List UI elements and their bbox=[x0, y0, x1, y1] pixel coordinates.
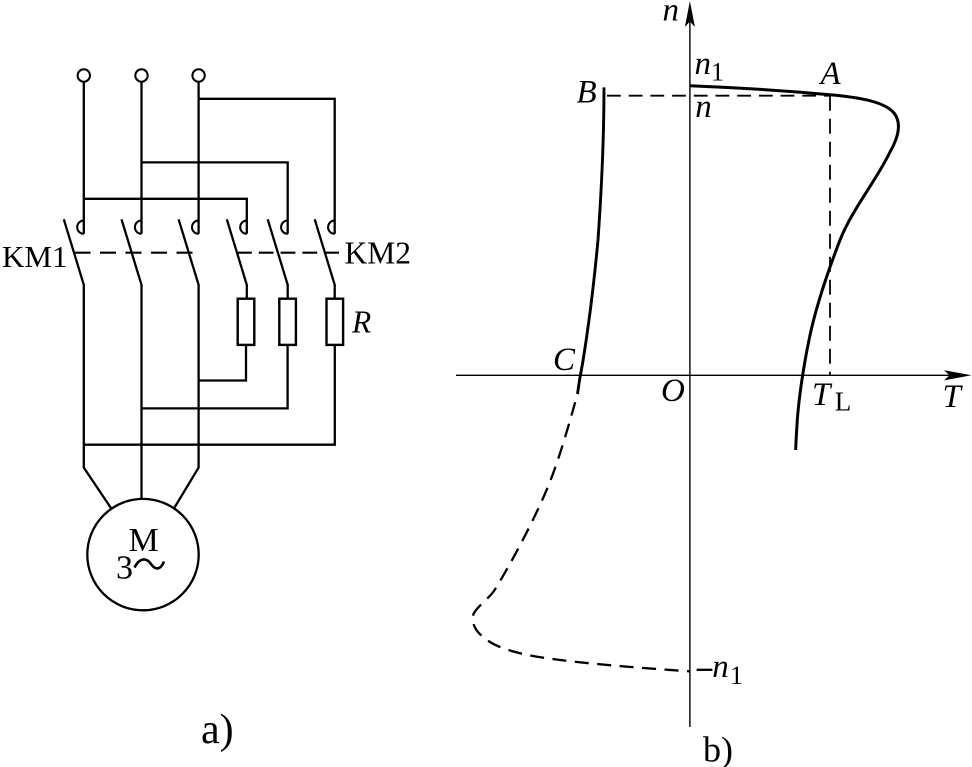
svg-text:n: n bbox=[695, 46, 712, 82]
svg-text:T: T bbox=[812, 377, 833, 413]
svg-text:C: C bbox=[553, 342, 576, 378]
svg-text:1: 1 bbox=[730, 661, 743, 690]
svg-text:n: n bbox=[712, 649, 729, 685]
svg-text:B: B bbox=[577, 75, 597, 111]
svg-text:n: n bbox=[663, 0, 680, 28]
svg-text:L: L bbox=[835, 387, 852, 417]
svg-text:b): b) bbox=[703, 730, 733, 767]
svg-text:KM2: KM2 bbox=[345, 236, 412, 271]
svg-text:A: A bbox=[819, 56, 842, 92]
svg-text:n: n bbox=[695, 89, 712, 125]
svg-text:3: 3 bbox=[116, 550, 133, 587]
svg-text:a): a) bbox=[201, 707, 234, 753]
svg-text:1: 1 bbox=[711, 58, 724, 87]
svg-text:R: R bbox=[351, 305, 371, 340]
svg-text:M: M bbox=[128, 522, 158, 559]
svg-text:T: T bbox=[943, 379, 964, 415]
svg-text:KM1: KM1 bbox=[2, 239, 67, 274]
svg-text:O: O bbox=[661, 373, 685, 409]
